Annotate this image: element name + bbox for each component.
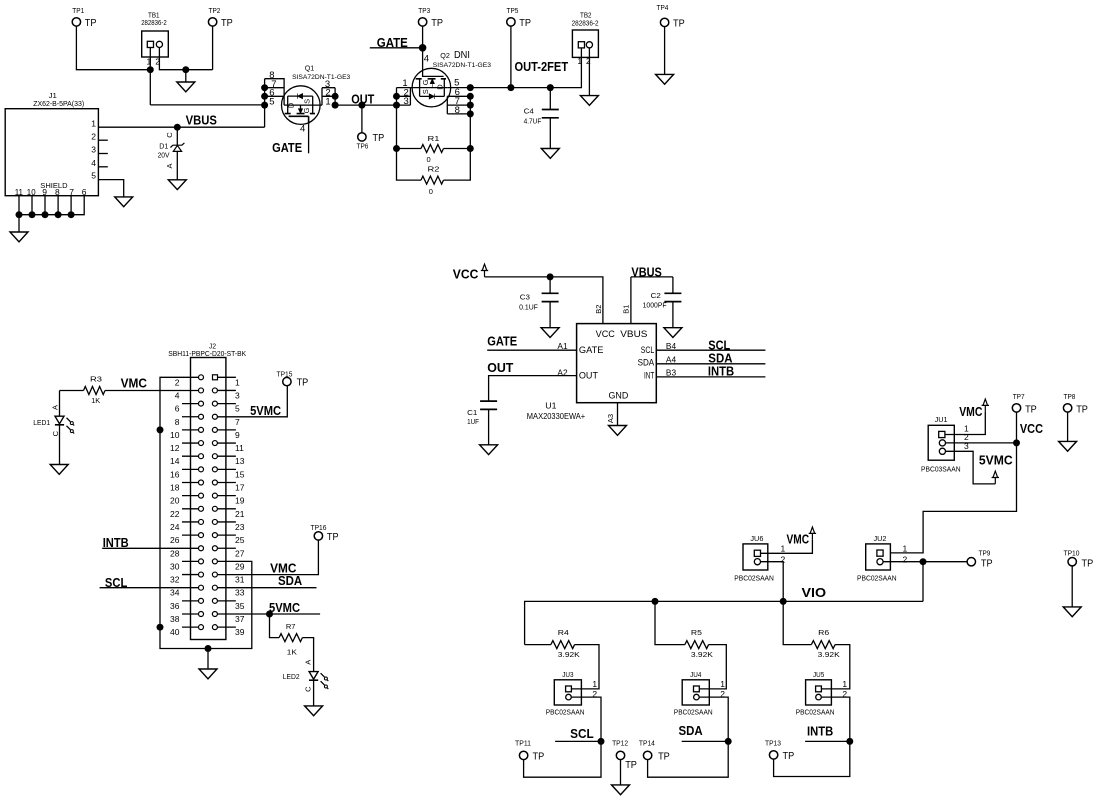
junction Q1 pin1 xyxy=(332,102,339,109)
J2 pin 36 xyxy=(182,600,199,602)
J2 pin 10 xyxy=(182,429,199,431)
svg-text:TP: TP xyxy=(533,750,545,762)
svg-text:37: 37 xyxy=(235,614,245,624)
svg-text:C3: C3 xyxy=(520,295,530,302)
transistor Q1 pin bracket right xyxy=(322,88,335,105)
wire SDA to TP14 xyxy=(648,741,729,777)
svg-text:TP16: TP16 xyxy=(311,523,327,532)
wire TP4 to ground xyxy=(664,27,666,75)
junction Q2 pin6 xyxy=(467,93,474,100)
junction Q1 pin2 xyxy=(332,93,339,100)
svg-text:27: 27 xyxy=(235,548,245,558)
svg-text:9: 9 xyxy=(42,187,47,197)
J2 pin 13 xyxy=(212,454,217,459)
svg-text:G: G xyxy=(302,107,311,113)
svg-text:1: 1 xyxy=(325,96,330,107)
svg-text:1: 1 xyxy=(903,544,908,554)
svg-text:S: S xyxy=(303,99,312,104)
svg-text:C: C xyxy=(51,430,60,436)
testpoint TP13 xyxy=(769,751,777,759)
svg-text:JU6: JU6 xyxy=(750,536,763,543)
svg-text:SDA: SDA xyxy=(638,358,655,368)
svg-text:VIO: VIO xyxy=(802,586,827,600)
jumper JU2 PBC02SAAN xyxy=(866,544,891,570)
wire INTB to J2 pin28 xyxy=(102,547,198,549)
svg-text:15: 15 xyxy=(235,469,245,479)
wire JU5 pin2 to INTB xyxy=(821,697,850,741)
svg-text:7: 7 xyxy=(69,187,74,197)
wire VIO rail xyxy=(525,601,923,644)
svg-text:TP: TP xyxy=(673,17,685,29)
svg-text:OUT: OUT xyxy=(487,361,514,375)
junction VIO R6 xyxy=(780,598,787,605)
svg-text:18: 18 xyxy=(170,483,180,493)
wire J2 ground stem xyxy=(207,649,209,670)
junction ground net xyxy=(182,66,189,73)
junction R7 xyxy=(266,611,273,618)
svg-text:36: 36 xyxy=(170,601,180,611)
wire junction down to VIO xyxy=(922,562,924,602)
testpoint TP6 xyxy=(361,105,363,133)
resistor R5 xyxy=(655,601,685,644)
testpoint TP11 xyxy=(519,751,527,759)
J2 pin 38 xyxy=(182,613,199,615)
J2 pin 35 xyxy=(212,598,217,603)
svg-text:17: 17 xyxy=(235,483,245,493)
svg-text:PBC03SAAN: PBC03SAAN xyxy=(921,467,961,474)
connector J1 xyxy=(5,109,98,196)
svg-text:19: 19 xyxy=(235,496,245,506)
svg-text:VBUS: VBUS xyxy=(620,329,647,339)
svg-text:28: 28 xyxy=(170,548,180,558)
svg-text:4: 4 xyxy=(424,53,429,64)
jumper JU4 PBC02SAAN xyxy=(682,680,709,705)
svg-text:PBC02SAAN: PBC02SAAN xyxy=(734,575,774,582)
svg-text:8: 8 xyxy=(55,187,60,197)
jumper JU6 PBC02SAAN xyxy=(743,544,768,570)
junction GATE TP3 xyxy=(419,44,427,52)
wire JU6 pin1 to VMC xyxy=(761,540,813,554)
svg-text:R5: R5 xyxy=(691,628,702,637)
svg-text:2: 2 xyxy=(903,555,908,565)
svg-text:TP13: TP13 xyxy=(765,738,781,747)
wire OUT-2FET to TB2 xyxy=(511,48,582,88)
svg-text:U1: U1 xyxy=(545,401,556,411)
svg-text:TP: TP xyxy=(297,377,309,389)
svg-text:1K: 1K xyxy=(287,647,297,656)
svg-text:6: 6 xyxy=(175,404,180,414)
svg-text:TB1: TB1 xyxy=(148,11,160,20)
svg-text:20: 20 xyxy=(170,496,180,506)
Q2 gate pin4 wire xyxy=(423,48,444,77)
capacitor C3 xyxy=(549,277,551,293)
svg-text:11: 11 xyxy=(235,443,244,453)
J2 pin 14 xyxy=(182,455,199,457)
wire TP12 to ground xyxy=(620,760,622,785)
jumper JU5 PBC02SAAN xyxy=(806,680,832,705)
svg-text:SBH11-PBPC-D20-ST-BK: SBH11-PBPC-D20-ST-BK xyxy=(168,351,246,358)
svg-text:TP: TP xyxy=(1025,404,1037,416)
Q1 gate pin4 wire xyxy=(308,124,310,153)
svg-text:VCC: VCC xyxy=(1020,422,1043,436)
svg-text:TP11: TP11 xyxy=(515,738,531,747)
ground symbol TB2 xyxy=(580,96,598,106)
svg-text:7: 7 xyxy=(235,417,240,427)
jumper JU3 PBC02SAAN xyxy=(554,680,581,705)
svg-text:SDA: SDA xyxy=(708,352,732,366)
J2 pin 7 xyxy=(212,414,217,419)
svg-text:R3: R3 xyxy=(90,374,102,383)
Q2 body diode xyxy=(429,94,434,99)
wire SCL to J2 pin34 and SDA to pin33 xyxy=(100,587,199,589)
svg-text:B1: B1 xyxy=(622,305,631,314)
testpoint TP3 xyxy=(418,18,426,26)
svg-text:5VMC: 5VMC xyxy=(250,404,281,418)
testpoint TP7 xyxy=(1012,404,1020,412)
J2 pin 26 xyxy=(182,534,199,536)
junction Q1 pin5 xyxy=(261,102,268,109)
svg-text:TP12: TP12 xyxy=(612,738,628,747)
svg-text:R2: R2 xyxy=(428,165,440,174)
svg-text:12: 12 xyxy=(170,443,180,453)
svg-text:JU3: JU3 xyxy=(562,672,573,679)
svg-text:JU1: JU1 xyxy=(935,417,948,424)
wire Q2 left to R1 R2 xyxy=(397,105,422,180)
J2 pin 15 xyxy=(212,467,217,472)
wire TP1 to TB1 pin1 net xyxy=(76,26,150,69)
wire SDA stub xyxy=(682,740,729,742)
J1 pin3 stub xyxy=(98,153,107,155)
junction VBUS at D1 xyxy=(174,124,181,131)
junction shield pin11 xyxy=(16,211,23,218)
svg-text:TP: TP xyxy=(625,759,637,771)
J2 pin 33 xyxy=(212,585,217,590)
svg-text:5VMC: 5VMC xyxy=(269,601,300,615)
ground symbol J2 xyxy=(199,669,217,679)
svg-text:282836-2: 282836-2 xyxy=(572,21,599,28)
J2 pin 18 xyxy=(182,482,199,484)
svg-text:40: 40 xyxy=(170,627,180,637)
junction Q2 pin5 xyxy=(467,84,474,91)
J2 pin 5 xyxy=(212,401,217,406)
svg-text:2: 2 xyxy=(175,377,180,387)
J1 shield pins wires xyxy=(18,196,20,215)
svg-text:SDA: SDA xyxy=(278,574,302,588)
Q2 channel ticks and gate bar xyxy=(416,78,446,80)
ground symbol TP8 xyxy=(1059,441,1077,451)
ground symbol below TB1 xyxy=(185,70,187,82)
resistor R1 xyxy=(421,145,444,153)
junction shield pin10 xyxy=(29,211,36,218)
testpoint TP12 xyxy=(616,751,624,759)
svg-text:2: 2 xyxy=(91,131,96,141)
svg-text:TP: TP xyxy=(221,17,233,29)
testpoint TP8 xyxy=(1063,404,1071,412)
wire JU1 pin3 to 5VMC xyxy=(946,451,996,484)
wire J2 pin2 to gnd vertical xyxy=(160,377,208,648)
svg-text:0: 0 xyxy=(429,187,433,196)
svg-text:PBC02SAAN: PBC02SAAN xyxy=(546,710,585,717)
junction C3 xyxy=(547,273,554,280)
J2 pin 21 xyxy=(212,506,217,511)
svg-text:13: 13 xyxy=(235,456,245,466)
wire JU6 pin2 to VIO xyxy=(761,562,784,602)
junction shield pin8 xyxy=(55,211,62,218)
testpoint TP16 xyxy=(314,532,322,540)
junction Q2 pin2 xyxy=(393,93,400,100)
svg-text:GATE: GATE xyxy=(487,335,517,349)
ground symbol TP10 xyxy=(1063,607,1081,617)
svg-text:TP9: TP9 xyxy=(979,549,991,558)
wire TP2 down xyxy=(212,26,214,69)
svg-text:20V: 20V xyxy=(158,152,170,159)
wire OUT Q1 to Q2 xyxy=(335,104,396,106)
testpoint TP1 xyxy=(72,18,80,26)
svg-text:A4: A4 xyxy=(666,355,676,365)
J2 pin 32 xyxy=(182,574,199,576)
svg-text:SCL: SCL xyxy=(708,339,730,353)
svg-text:5: 5 xyxy=(269,96,274,107)
svg-text:3: 3 xyxy=(91,145,96,155)
ground symbol D1 xyxy=(168,180,186,190)
svg-text:282836-2: 282836-2 xyxy=(141,20,167,27)
J2 pin 8 xyxy=(182,416,199,418)
junction shield pin7 xyxy=(68,211,75,218)
svg-text:10: 10 xyxy=(170,430,180,440)
capacitor C1 xyxy=(480,401,497,409)
svg-text:TP5: TP5 xyxy=(507,6,519,15)
svg-text:C4: C4 xyxy=(524,109,534,116)
svg-text:A3: A3 xyxy=(606,414,615,423)
svg-text:1: 1 xyxy=(592,679,597,689)
svg-text:8: 8 xyxy=(175,417,180,427)
svg-text:SCL: SCL xyxy=(570,727,594,741)
wire Q2 source to OUT-2FET xyxy=(447,87,511,89)
J2 pin 20 xyxy=(182,495,199,497)
svg-text:R1: R1 xyxy=(428,134,440,143)
svg-text:VMC: VMC xyxy=(787,533,810,547)
svg-text:TP7: TP7 xyxy=(1013,392,1025,401)
svg-text:SISA72DN-T1-GE3: SISA72DN-T1-GE3 xyxy=(292,74,350,81)
svg-text:B2: B2 xyxy=(594,305,603,314)
svg-text:PBC02SAAN: PBC02SAAN xyxy=(674,710,713,717)
terminal block TB1 xyxy=(142,31,169,57)
junction OUT TP6 xyxy=(358,102,365,109)
svg-text:11: 11 xyxy=(15,187,24,197)
ground symbol J1 shield xyxy=(10,232,28,242)
J2 pin 16 xyxy=(182,468,199,470)
ground symbol U1 xyxy=(609,426,627,436)
svg-text:PBC02SAAN: PBC02SAAN xyxy=(796,710,835,717)
svg-text:3: 3 xyxy=(403,96,408,107)
svg-text:39: 39 xyxy=(235,627,245,637)
jumper JU1 PBC03SAAN xyxy=(928,425,954,460)
svg-text:14: 14 xyxy=(170,456,180,466)
svg-text:VMC: VMC xyxy=(959,405,982,419)
resistor R7 xyxy=(270,614,280,638)
svg-text:1: 1 xyxy=(577,56,582,66)
svg-text:VMC: VMC xyxy=(121,377,147,391)
wire INTB stub xyxy=(805,740,850,742)
svg-text:3.92K: 3.92K xyxy=(818,650,840,659)
transistor Q1 pin bracket left xyxy=(265,79,285,105)
J2 pin 19 xyxy=(212,493,217,498)
zener diode D1 xyxy=(176,127,178,145)
svg-text:TP: TP xyxy=(1082,558,1094,570)
svg-text:23: 23 xyxy=(235,522,245,532)
J2 pin 3 xyxy=(212,388,217,393)
svg-text:4: 4 xyxy=(175,390,180,400)
wire TP10 to ground xyxy=(1071,566,1073,607)
svg-text:33: 33 xyxy=(235,588,245,598)
svg-text:R4: R4 xyxy=(558,628,569,637)
svg-text:INTB: INTB xyxy=(807,725,833,739)
testpoint TP10 xyxy=(1068,558,1076,566)
J2 pin 39 xyxy=(212,625,217,630)
wire VCC rail xyxy=(485,277,603,324)
svg-text:D: D xyxy=(286,102,295,108)
svg-text:SDA: SDA xyxy=(679,724,703,738)
wire INTB from U1 xyxy=(656,376,765,378)
svg-text:A: A xyxy=(51,405,60,410)
svg-text:TP2: TP2 xyxy=(209,6,221,15)
svg-text:TP: TP xyxy=(981,558,993,570)
svg-text:TP15: TP15 xyxy=(277,370,293,379)
testpoint TP14 xyxy=(643,751,651,759)
svg-text:1: 1 xyxy=(235,377,240,387)
svg-text:TP8: TP8 xyxy=(1064,392,1076,401)
svg-text:OUT-2FET: OUT-2FET xyxy=(515,60,569,74)
svg-text:MAX20330EWA+: MAX20330EWA+ xyxy=(527,412,586,421)
J2 pin 17 xyxy=(212,480,217,485)
svg-text:1UF: 1UF xyxy=(467,419,479,426)
wire J2 pin29 to ground rail xyxy=(208,561,252,648)
svg-text:INTB: INTB xyxy=(708,365,734,379)
ground symbol C1 xyxy=(480,445,498,455)
svg-text:B3: B3 xyxy=(666,367,676,377)
wire JU4 pin2 to SDA xyxy=(699,697,728,741)
wire GATE net xyxy=(370,47,423,49)
svg-text:A: A xyxy=(165,163,174,168)
J2 pin 22 xyxy=(182,508,199,510)
svg-text:16: 16 xyxy=(170,469,180,479)
svg-text:22: 22 xyxy=(170,509,180,519)
svg-text:TP: TP xyxy=(431,17,443,29)
svg-text:1: 1 xyxy=(91,118,96,128)
svg-text:SCL: SCL xyxy=(641,345,654,355)
testpoint TP4 xyxy=(660,18,668,26)
J1 pin5 wire to ground xyxy=(98,180,123,197)
Q2 through wire xyxy=(410,87,447,89)
wire TB2 pin2 to ground xyxy=(588,48,590,96)
svg-text:5: 5 xyxy=(91,171,96,181)
wire TB1 pin2 to ground net xyxy=(159,48,212,70)
terminal block TB2 xyxy=(572,30,598,57)
resistor R4 xyxy=(525,644,551,646)
svg-text:INT: INT xyxy=(644,371,655,381)
wire TP3 to Q2 gate xyxy=(422,26,424,48)
svg-text:1: 1 xyxy=(781,544,786,554)
J2 pin 31 xyxy=(212,572,217,577)
connector J2 SBH11-PBPC-D20-ST-BK xyxy=(191,358,226,640)
svg-text:1: 1 xyxy=(720,679,725,689)
ground symbol TP4 xyxy=(656,74,674,84)
wire SCL to TP11 xyxy=(524,741,601,777)
svg-text:G: G xyxy=(421,79,430,85)
svg-text:TP4: TP4 xyxy=(657,3,669,12)
svg-text:GATE: GATE xyxy=(579,345,604,355)
resistor R6 xyxy=(783,601,811,644)
junction OUT-2FET TP5 xyxy=(507,84,514,91)
svg-text:29: 29 xyxy=(235,561,245,571)
capacitor C2 xyxy=(672,277,674,293)
svg-text:0.1UF: 0.1UF xyxy=(519,305,538,312)
ground symbol C2 xyxy=(664,328,682,338)
svg-text:21: 21 xyxy=(235,509,245,519)
svg-text:TP: TP xyxy=(658,750,670,762)
svg-text:3: 3 xyxy=(235,390,240,400)
wire JU2 pin2 to TP9 xyxy=(883,561,967,563)
junction J2 ground xyxy=(205,645,212,652)
svg-text:VCC: VCC xyxy=(453,268,479,282)
J2 pin 34 xyxy=(199,585,204,590)
svg-text:10: 10 xyxy=(27,187,36,197)
ground symbol LED2 xyxy=(305,706,323,716)
J2 pin 23 xyxy=(212,519,217,524)
wire Q2 right to R2 xyxy=(444,114,471,180)
U1 GND pin wire xyxy=(617,403,619,426)
svg-text:34: 34 xyxy=(170,588,180,598)
junction J2 pin40 xyxy=(157,624,164,631)
svg-text:D1: D1 xyxy=(159,144,168,151)
svg-text:GND: GND xyxy=(609,390,629,400)
svg-text:1: 1 xyxy=(842,679,847,689)
J2 pin 1 xyxy=(213,375,218,380)
J2 pin 28 xyxy=(199,546,204,551)
J2 pin 12 xyxy=(182,442,199,444)
svg-text:26: 26 xyxy=(170,535,180,545)
wire SCL from U1 xyxy=(656,349,765,351)
J2 pin 2 xyxy=(199,375,204,380)
J2 pin 6 xyxy=(182,403,199,405)
junction R1 right xyxy=(467,145,474,152)
svg-text:6: 6 xyxy=(82,187,87,197)
junction SDA xyxy=(725,738,732,745)
wire R1 left stub xyxy=(397,148,422,150)
svg-text:Q2: Q2 xyxy=(440,51,450,60)
J1 pin2 stub xyxy=(98,139,107,141)
J2 pin 11 xyxy=(212,441,217,446)
svg-text:D: D xyxy=(436,84,445,90)
wire TP7 VCC down to JU2 xyxy=(890,412,1016,553)
junction INTB xyxy=(846,738,853,745)
svg-text:25: 25 xyxy=(235,535,245,545)
ground symbol C3 xyxy=(541,328,559,338)
wire J2 pin7 5VMC to TP15 xyxy=(217,386,287,417)
svg-text:32: 32 xyxy=(170,575,180,585)
J2 pin 4 xyxy=(199,388,204,393)
svg-text:4: 4 xyxy=(91,158,96,168)
svg-text:TP: TP xyxy=(373,132,385,144)
svg-text:2: 2 xyxy=(586,56,591,66)
wire TB1 pin1 net to Q1 drain pins xyxy=(150,104,264,106)
J1 pin4 stub xyxy=(98,166,107,168)
capacitor C4 xyxy=(549,88,551,110)
svg-text:5VMC: 5VMC xyxy=(979,454,1013,468)
wire SCL stub xyxy=(555,740,601,742)
svg-text:S: S xyxy=(421,89,430,94)
J2 pin 40 xyxy=(182,626,199,628)
